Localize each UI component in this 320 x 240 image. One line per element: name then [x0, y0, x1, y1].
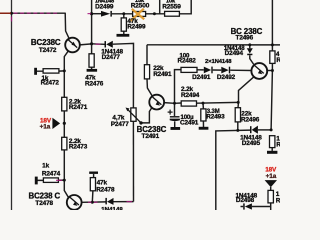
wire R2472 row — [37, 70, 65, 72]
diode D2479 — [105, 198, 107, 205]
svg-text:BC238 C: BC238 C — [28, 192, 60, 201]
svg-text:C2491: C2491 — [180, 119, 199, 126]
rail bar above R2478 — [89, 172, 98, 174]
junction D2495 wire / right column — [270, 128, 273, 131]
svg-text:R: R — [276, 57, 280, 64]
resistor right of D2495 (label cut) — [270, 136, 275, 148]
wire right column x=272 top — [271, 0, 272, 130]
resistor R2471 2.2k — [62, 97, 67, 111]
wire collector T2478 — [82, 201, 106, 203]
wire R2493 stem — [202, 103, 205, 127]
red pencil dashes on top wire — [0, 13, 132, 202]
wire base T2472 — [80, 44, 92, 45]
svg-text:R2476: R2476 — [85, 80, 104, 87]
wire R2559 right corner up — [179, 0, 191, 14]
wire riser from top edge at x=91.6 — [91, 0, 93, 44]
ground of R2499 — [117, 34, 130, 37]
potentiometer P2477 body — [131, 108, 136, 121]
wire D2477 junction to diode — [92, 43, 105, 46]
svg-text:R2491: R2491 — [153, 71, 172, 78]
junction right column / top rail — [271, 43, 274, 46]
wire D2492 to base T2496 — [230, 69, 251, 71]
svg-text:D2494: D2494 — [225, 50, 244, 57]
wire D2499 to R2500 — [112, 13, 133, 15]
wire left bus vertical — [11, 0, 13, 210]
ground of R2493 — [199, 127, 209, 130]
svg-text:R2473: R2473 — [69, 143, 88, 150]
resistor R2499 47k — [121, 18, 126, 31]
wire top row to diode D2499 — [92, 13, 101, 15]
wire emitter T2491 to pot wiper — [141, 108, 152, 123]
capacitor C2491 plates — [170, 116, 180, 117]
junction R2474 / emitter chain — [63, 179, 66, 182]
wire D2491 to D2492 — [213, 69, 222, 71]
wire pot to bottom corner — [132, 121, 134, 201]
wire collector T2496 to right column — [266, 70, 272, 72]
wire bottom mid vertical x=215.8 — [216, 130, 250, 210]
svg-text:T2496: T2496 — [236, 35, 254, 42]
terminal bar R2474 — [35, 177, 38, 185]
diode D2477 — [105, 41, 107, 47]
resistor R2476 47k — [89, 54, 94, 67]
ground of R2476 — [87, 69, 98, 72]
capacitor C2491 plus sign — [168, 110, 173, 115]
svg-text:R2472: R2472 — [41, 80, 60, 87]
resistor R2500 — [133, 12, 146, 17]
resistor bottom right (label cut) — [268, 190, 273, 203]
junction riser x91.6 / top wire — [90, 12, 93, 15]
junction R2499 top — [122, 12, 125, 15]
svg-text:T2478: T2478 — [35, 200, 53, 207]
wire collector riser of T2472 — [65, 13, 69, 40]
wire T2491 right to junction — [164, 102, 175, 105]
svg-text:R2496: R2496 — [241, 117, 260, 124]
svg-text:D2492: D2492 — [217, 74, 236, 81]
junction bus x11.5 / top wire — [10, 12, 13, 15]
svg-text:D2499: D2499 — [95, 4, 114, 11]
diode D2492 — [221, 67, 228, 74]
svg-text:R2471: R2471 — [69, 104, 88, 111]
diode D2498 bottom edge — [243, 203, 245, 209]
junction R2500-R2559 — [153, 12, 156, 15]
resistor R2482 100 — [181, 67, 197, 72]
svg-text:1N4148: 1N4148 — [101, 207, 123, 211]
svg-text:P2477: P2477 — [111, 121, 129, 128]
svg-text:+1a: +1a — [266, 173, 277, 180]
resistor R2494 2.2k — [181, 101, 196, 106]
junction emitter T2491 / C2491 / R2482 — [173, 102, 176, 105]
wire D2479 to corner — [114, 201, 134, 203]
svg-text:D2491: D2491 — [192, 74, 211, 81]
svg-text:47k: 47k — [97, 179, 108, 186]
wire bottom right input to resistor — [270, 187, 272, 210]
resistor R2478 47k — [90, 178, 95, 191]
resistor R2491 2.2k — [144, 65, 149, 79]
potentiometer P2477 wiper arrow — [126, 108, 141, 123]
ground right column — [267, 151, 277, 154]
wire emitter chain T2472 down left column — [64, 51, 68, 198]
wire top right rail y=44.9 — [147, 44, 280, 46]
resistor R2473 2.2k — [62, 137, 67, 150]
junction R2472 / emitter chain — [63, 69, 66, 72]
svg-text:D2477: D2477 — [102, 54, 121, 61]
wire emitter stub T2478 — [73, 209, 75, 211]
junction input arrow left — [63, 122, 66, 125]
resistor R2496 22k — [235, 108, 240, 122]
resistor R2559 10k — [165, 11, 180, 16]
wire rail stem R2478 — [92, 174, 93, 202]
transistor T2472 — [65, 38, 80, 53]
svg-text:R: R — [276, 141, 280, 148]
svg-text:2×1N4148: 2×1N4148 — [205, 59, 232, 65]
red pencil solid segment left of bus — [0, 12, 11, 14]
resistor R2474 1k — [43, 178, 58, 183]
wire D2494 stems — [250, 45, 254, 65]
wire emitter row y=103 — [175, 101, 239, 104]
svg-text:T2472: T2472 — [39, 47, 57, 54]
wire R2474 row — [37, 179, 64, 181]
wire riser up at x=159.7 — [159, 0, 161, 14]
resistor R2472 1k — [43, 69, 59, 73]
wire R2482 riser and corner — [175, 70, 182, 104]
svg-text:T2491: T2491 — [142, 133, 160, 140]
annotation orange X over R2500 — [131, 9, 145, 21]
terminal bar R2472 — [34, 68, 37, 75]
wire bottom right D2498 row — [241, 206, 271, 208]
svg-text:R: R — [276, 197, 280, 204]
diode D2499 — [101, 11, 110, 17]
diode D2495 — [250, 126, 252, 133]
svg-text:R2474: R2474 — [42, 171, 61, 178]
svg-text:R2499: R2499 — [127, 23, 146, 30]
junction collector T2496 — [271, 69, 274, 72]
wire R2482 to D2491 — [197, 69, 204, 71]
transistor T2491 — [149, 95, 164, 110]
svg-text:D2495: D2495 — [242, 140, 261, 147]
junction R2478 / collector T2478 — [91, 201, 94, 204]
wire top left horizontal — [0, 12, 65, 14]
wire D2477 to corner and down to pot — [113, 43, 134, 108]
wire collector riser T2491 — [147, 45, 153, 97]
wire R2500 to R2559 — [146, 13, 165, 15]
junction D2494 / top rail — [248, 43, 251, 46]
junction emitter T2496 / R2496 — [237, 101, 240, 104]
wire R2476 stem — [91, 44, 93, 69]
transistor T2478 — [67, 195, 82, 210]
svg-text:R2482: R2482 — [178, 58, 197, 65]
resistor 47k top right (label cut) — [270, 51, 275, 64]
wire D2495 to right column — [258, 129, 271, 131]
svg-text:R2559: R2559 — [162, 4, 181, 11]
svg-text:15k: 15k — [135, 0, 145, 4]
svg-text:R2493: R2493 — [206, 114, 225, 121]
svg-text:+1a: +1a — [40, 123, 51, 130]
svg-text:1k: 1k — [42, 162, 49, 169]
resistor R2493 3.3M — [201, 109, 206, 121]
svg-text:BC238C: BC238C — [31, 38, 61, 47]
junction R2496 bottom / wire y130 — [236, 129, 239, 132]
input arrow bottom right 18V — [265, 180, 277, 187]
diode D2491 — [204, 67, 211, 74]
wire emitter T2496 down to R2496 — [238, 77, 254, 130]
junction pot wiper P2477 — [139, 121, 142, 124]
svg-text:D2498: D2498 — [236, 197, 255, 204]
svg-text:R2478: R2478 — [96, 186, 115, 193]
junction base T2472 / R2476 / D2477 — [90, 42, 93, 45]
junction R2493 top — [202, 102, 205, 105]
transistor T2496 — [251, 63, 267, 79]
input arrow left 18V — [52, 118, 60, 129]
wire R2499 stem — [123, 14, 125, 34]
svg-text:R2494: R2494 — [181, 92, 200, 99]
diode D2494 vertical — [247, 48, 253, 53]
ground of C2491 — [171, 127, 181, 130]
wire C2491 stem — [174, 103, 176, 127]
wire right ground stem — [271, 148, 273, 151]
